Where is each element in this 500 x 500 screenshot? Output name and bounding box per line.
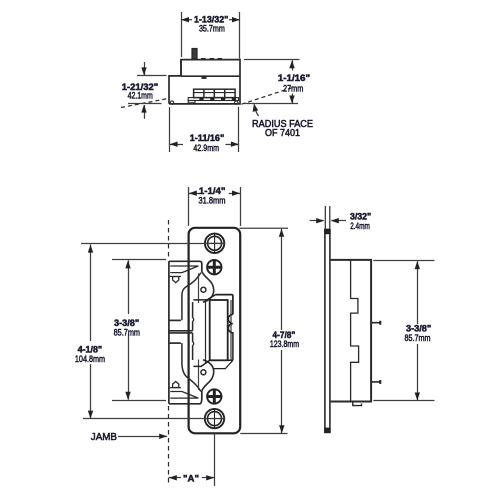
svg-text:85.7mm: 85.7mm: [405, 333, 431, 344]
svg-text:JAMB: JAMB: [91, 432, 118, 443]
svg-text:123.8mm: 123.8mm: [270, 339, 299, 350]
svg-text:2.4mm: 2.4mm: [350, 221, 370, 232]
svg-text:85.7mm: 85.7mm: [114, 327, 140, 338]
svg-text:31.8mm: 31.8mm: [199, 196, 226, 207]
svg-text:27mm: 27mm: [283, 84, 303, 95]
svg-text:35.7mm: 35.7mm: [199, 24, 225, 35]
svg-text:"A": "A": [183, 473, 199, 484]
svg-text:104.8mm: 104.8mm: [75, 354, 105, 365]
svg-text:42.9mm: 42.9mm: [193, 143, 219, 154]
svg-text:OF 7401: OF 7401: [265, 128, 300, 139]
svg-text:1-1/16": 1-1/16": [278, 73, 310, 84]
svg-text:42.1mm: 42.1mm: [128, 91, 153, 102]
